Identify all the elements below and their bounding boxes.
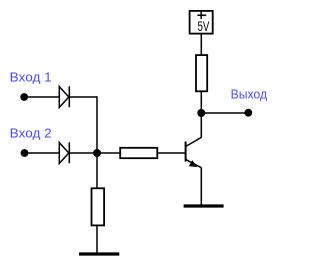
wire input1 to diode VD1 anode bbox=[24, 96, 60, 98]
svg-text:Вход 2: Вход 2 bbox=[10, 126, 52, 141]
svg-text:5V: 5V bbox=[198, 19, 210, 34]
wire R2 to ground bbox=[96, 226, 98, 254]
node A junction dot bbox=[93, 149, 101, 157]
resistor R2 (pull-down) bbox=[92, 188, 105, 225]
wire corner down to junction node A bbox=[96, 96, 98, 153]
wire node B to output terminal bbox=[201, 112, 248, 114]
node input 1 terminal bbox=[20, 93, 28, 101]
svg-text:Вход 1: Вход 1 bbox=[10, 70, 52, 85]
wire supply to resistor R3 bbox=[200, 35, 202, 55]
node output terminal bbox=[244, 109, 252, 117]
power supply +5V box bbox=[190, 11, 213, 34]
wire emitter down to ground bbox=[200, 168, 202, 206]
ground (right) bbox=[184, 204, 224, 207]
diode VD2 bbox=[59, 142, 69, 163]
diode VD1 bbox=[59, 86, 69, 107]
node input 2 terminal bbox=[21, 149, 29, 157]
wire R1 to base of VT1 bbox=[158, 152, 185, 154]
wire R3 down to node B bbox=[200, 91, 202, 113]
ground (left) bbox=[79, 252, 119, 255]
svg-text:Выход: Выход bbox=[231, 87, 268, 102]
wire node A down to resistor R2 bbox=[96, 153, 98, 188]
wire VD2 cathode to resistor R1 bbox=[69, 152, 119, 154]
plus sign bbox=[197, 11, 206, 20]
resistor R1 (base series) bbox=[120, 148, 157, 158]
wire collector up to node B bbox=[200, 113, 202, 138]
node B junction dot bbox=[197, 109, 205, 117]
transistor VT1 bbox=[186, 137, 202, 167]
resistor R3 (collector pull-up) bbox=[196, 55, 207, 91]
wire VD1 cathode to corner bbox=[69, 96, 97, 98]
wire input2 to diode VD2 anode bbox=[24, 152, 60, 154]
